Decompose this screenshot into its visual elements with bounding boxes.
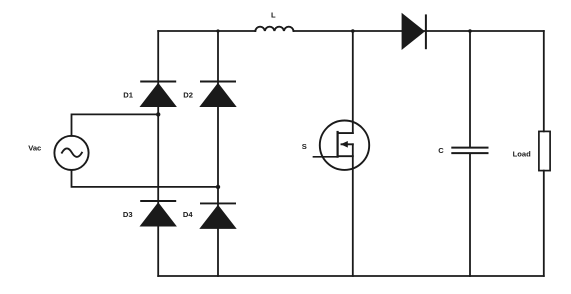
svg-text:D1: D1 bbox=[123, 91, 133, 100]
svg-text:L: L bbox=[271, 10, 276, 19]
svg-text:D2: D2 bbox=[183, 91, 193, 100]
svg-text:C: C bbox=[438, 146, 444, 155]
svg-text:D3: D3 bbox=[123, 210, 133, 219]
svg-text:S: S bbox=[302, 142, 307, 151]
svg-text:Load: Load bbox=[513, 150, 532, 159]
svg-text:Vac: Vac bbox=[28, 143, 41, 152]
svg-text:D4: D4 bbox=[183, 210, 193, 219]
